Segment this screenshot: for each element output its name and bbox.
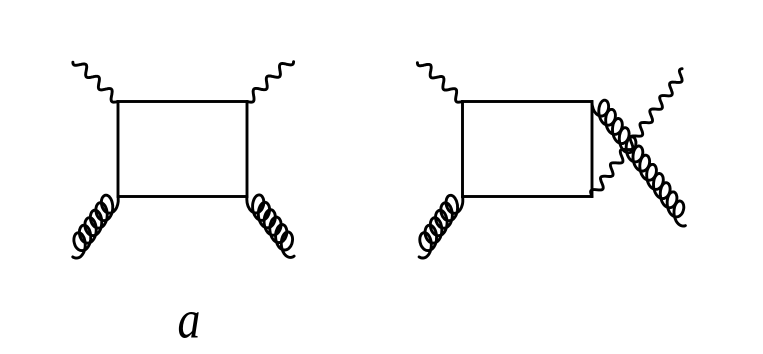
right gluon crossing from top-right corner	[592, 100, 685, 226]
svg-text:a: a	[178, 289, 201, 349]
right photon crossing from bottom-right corner	[591, 69, 683, 197]
left gluon bottom-right	[247, 195, 294, 258]
label a	[178, 289, 201, 349]
right box quark loop	[463, 102, 593, 197]
left photon top-right	[247, 62, 294, 102]
left gluon bottom-left	[73, 195, 118, 258]
right photon top-left	[417, 63, 462, 102]
right gluon bottom-left	[419, 195, 463, 258]
left box quark loop	[118, 102, 247, 197]
left photon top-left	[73, 62, 118, 102]
